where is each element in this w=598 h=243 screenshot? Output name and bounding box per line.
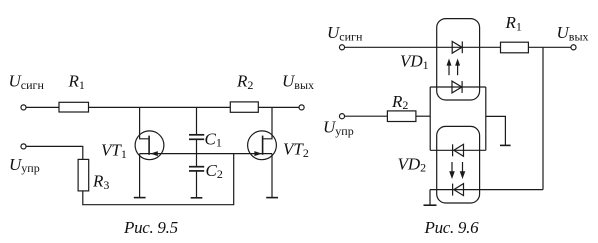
ground VT2 <box>266 197 278 199</box>
resistor R3 <box>78 159 89 191</box>
diode VD2 photodiode <box>454 184 464 196</box>
VT2 gate arrow <box>254 151 262 156</box>
VT1 gate arrow <box>150 151 158 156</box>
terminal U_upr (left circuit control) <box>21 144 26 149</box>
capacitor C2 <box>189 166 204 168</box>
svg-text:Рис. 9.6: Рис. 9.6 <box>424 218 480 237</box>
terminal U_sign (left circuit input) <box>21 105 26 110</box>
resistor R2 (right) <box>387 111 416 122</box>
svg-text:Uсигн: Uсигн <box>9 72 45 92</box>
svg-text:R2: R2 <box>391 92 408 112</box>
svg-text:Uупр: Uупр <box>323 118 354 138</box>
wire VT2 drain <box>263 107 272 138</box>
wire LED loop left vertical <box>429 87 431 150</box>
wire VT2 source down <box>271 154 273 198</box>
terminal U_vyh (right circuit output) <box>571 45 576 50</box>
capacitor C1 <box>189 134 204 136</box>
diode VD1 photodiode <box>452 41 462 53</box>
wire R1 to R2 (top rail) <box>89 106 231 108</box>
svg-text:VT1: VT1 <box>101 141 127 161</box>
terminal U_upr (right circuit control) <box>339 114 344 119</box>
wire R1 to output terminal <box>528 46 571 48</box>
svg-text:Рис. 9.5: Рис. 9.5 <box>123 218 178 237</box>
ground right tap <box>500 144 511 146</box>
resistor R1 (right) <box>501 42 529 53</box>
wire gate rail VT1-VT2 (with VT1 source seg and VT2 source seg) <box>140 153 272 155</box>
svg-text:Uвых: Uвых <box>282 72 314 92</box>
terminal U_vyh (left circuit output) <box>299 105 304 110</box>
terminal U_sign (right circuit input) <box>339 45 344 50</box>
wire feedback right vertical <box>542 47 544 189</box>
wire LED loop right vertical <box>485 87 487 150</box>
VD1 light arrows up <box>448 63 450 75</box>
wire VT1 drain <box>140 107 150 138</box>
svg-text:Uвых: Uвых <box>557 23 589 43</box>
svg-text:R1: R1 <box>68 72 85 92</box>
ground VT1 <box>134 197 146 199</box>
svg-text:C2: C2 <box>206 161 223 181</box>
wire R2 to LED loop <box>416 115 430 117</box>
wire input to R1 through VD1 photodiode <box>345 46 501 48</box>
wire terminal to R1 <box>26 106 59 108</box>
VD2 light arrows down <box>451 162 453 172</box>
transistor VT1 <box>135 131 164 160</box>
transistor VT2 <box>248 131 277 160</box>
svg-text:R3: R3 <box>92 172 109 192</box>
wire C1 top stem <box>196 107 198 134</box>
optocoupler box VD1 <box>437 19 480 100</box>
wire C2 bottom stem <box>196 171 198 198</box>
wire gate rail to C2 <box>196 154 198 167</box>
svg-text:VD2: VD2 <box>398 154 427 174</box>
wire VD2 lower line <box>430 189 543 191</box>
wire R3 bottom rail <box>83 154 234 205</box>
wire VD2 upper line <box>430 149 486 151</box>
diode VD2 LED <box>454 144 464 156</box>
ground C2 <box>191 197 203 199</box>
ground left (right circuit) <box>424 204 437 206</box>
resistor R1 (left) <box>59 102 89 112</box>
svg-text:R2: R2 <box>236 72 253 92</box>
wire U_upr to R2 <box>345 115 388 117</box>
wire U_upr to R3 <box>26 146 83 159</box>
wire C1 to gate rail <box>196 140 198 154</box>
resistor R2 (left) <box>230 102 258 112</box>
wire VT1 source down <box>139 154 141 198</box>
svg-text:VT2: VT2 <box>283 140 309 160</box>
diode VD1 LED <box>430 86 486 88</box>
svg-text:VD1: VD1 <box>400 52 429 72</box>
wire R2 to output terminal <box>258 106 299 108</box>
svg-text:Uсигн: Uсигн <box>327 23 363 43</box>
svg-text:R1: R1 <box>505 13 522 33</box>
wire to ground tap right <box>486 116 506 145</box>
svg-text:Uупр: Uупр <box>9 155 40 175</box>
optocoupler box VD2 <box>437 126 480 203</box>
svg-text:C1: C1 <box>205 129 222 149</box>
wire left ground stem <box>429 190 431 206</box>
